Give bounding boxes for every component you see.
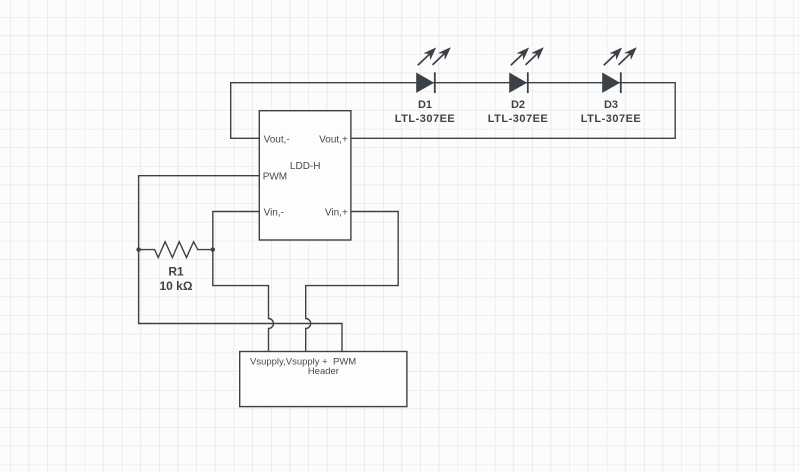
wire: PWM pin left and down to header [139, 176, 342, 352]
svg-text:LTL-307EE: LTL-307EE [488, 113, 549, 125]
svg-text:PWM: PWM [263, 171, 287, 182]
svg-text:D1: D1 [418, 99, 432, 111]
wire: Vin,- pin to resistor right node [213, 212, 259, 250]
svg-text:Vin,+: Vin,+ [325, 207, 348, 218]
svg-text:Header: Header [308, 366, 339, 377]
wire: Vout loop (Vout,- up over LED string to Vout,+) [231, 83, 676, 139]
svg-text:LTL-307EE: LTL-307EE [581, 113, 642, 125]
svg-text:D3: D3 [604, 99, 618, 111]
svg-text:Vsupply,Vsupply + PWM: Vsupply,Vsupply + PWM [250, 357, 356, 368]
svg-text:Vout,+: Vout,+ [319, 135, 348, 146]
LED D3 [603, 48, 637, 94]
svg-text:LDD-H: LDD-H [290, 161, 321, 172]
svg-text:D2: D2 [511, 99, 525, 111]
LED D2 [510, 48, 544, 94]
svg-text:LTL-307EE: LTL-307EE [395, 113, 456, 125]
header connector box [240, 352, 407, 407]
svg-text:10 kΩ: 10 kΩ [160, 279, 193, 293]
svg-text:Vin,-: Vin,- [264, 207, 284, 218]
LDD-H driver box U1 [259, 111, 351, 240]
LED D1 [417, 48, 451, 94]
svg-text:R1: R1 [168, 265, 184, 279]
svg-text:Vout,-: Vout,- [264, 135, 290, 146]
junction node: resistor left [136, 247, 140, 251]
junction node: resistor right [211, 247, 215, 251]
wire: resistor node down to header (hops over PWM wire) [213, 250, 274, 352]
resistor R1 [139, 242, 213, 258]
wire: Vin,+ pin right, down and to header (hops over PWM wire) [306, 212, 399, 352]
